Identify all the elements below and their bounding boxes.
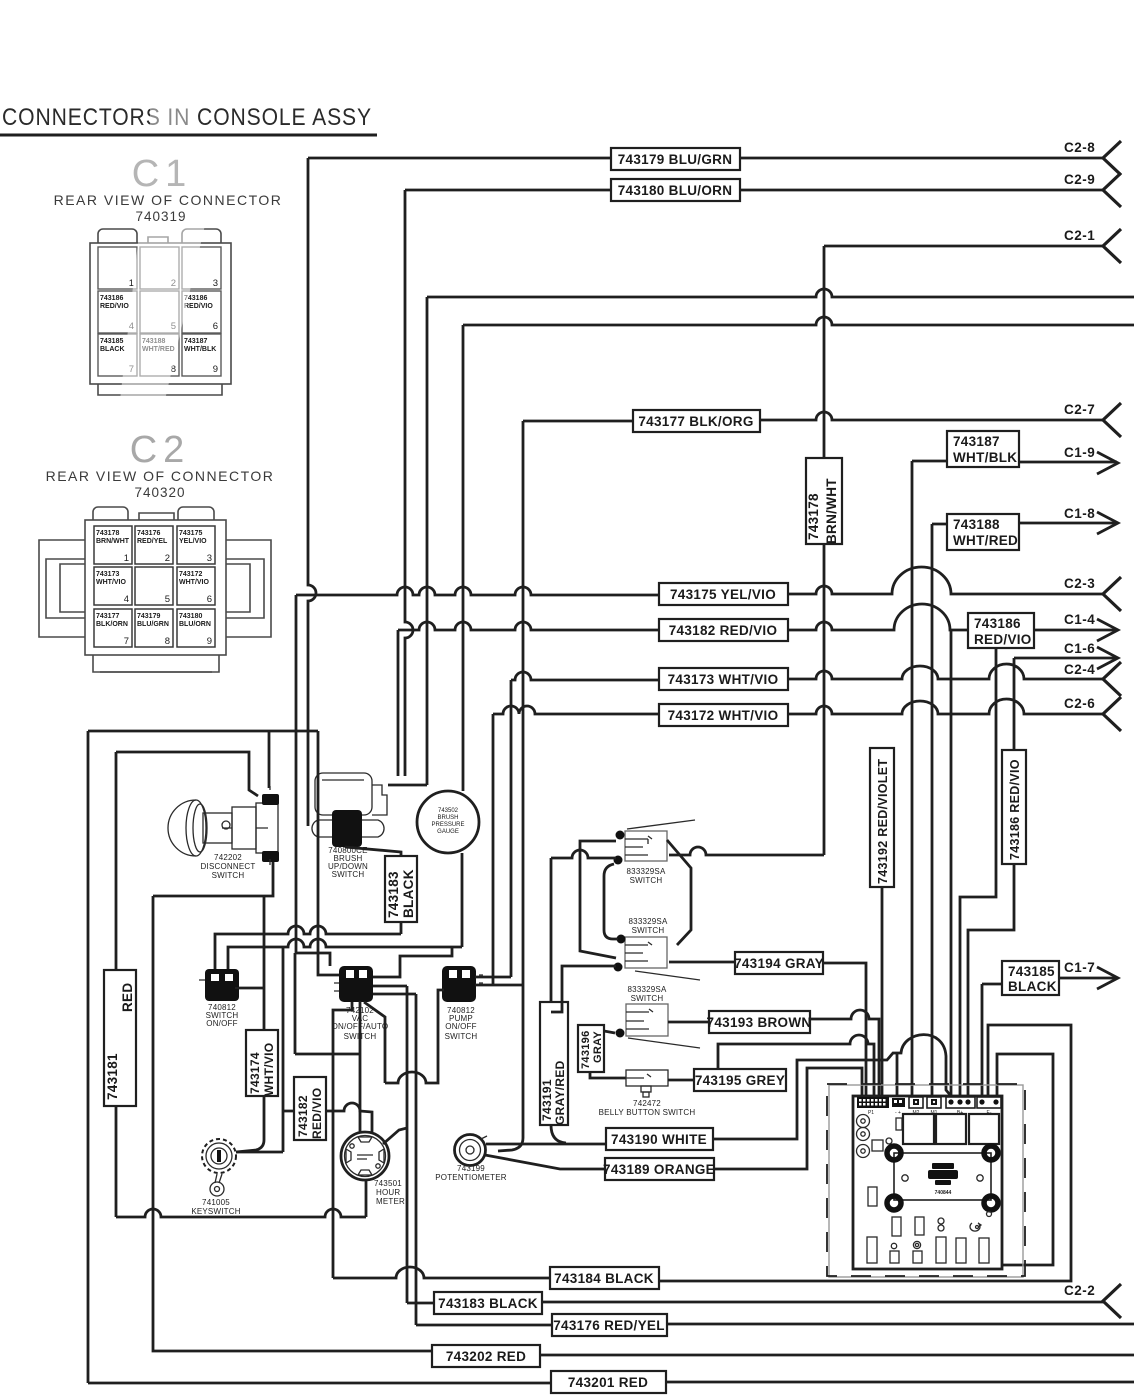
svg-text:METER: METER: [376, 1197, 405, 1206]
module screw holes: [902, 1175, 908, 1181]
label box 743176 RED/YEL: [552, 1314, 667, 1336]
wire E- wrap: [950, 1054, 1053, 1269]
brush switch ears: [312, 820, 384, 837]
switch 742102 vac: [334, 966, 373, 1002]
wire vac to y947 riser: [373, 947, 452, 977]
wire 743183 to C2-2: [542, 1301, 1104, 1304]
board small components: [867, 1187, 992, 1263]
connector C1 wire labels: [100, 295, 216, 353]
svg-text:C1-9: C1-9: [1064, 445, 1095, 460]
svg-text:GAUGE: GAUGE: [437, 829, 459, 835]
wire sw2 bottom branch: [551, 966, 616, 1012]
wire 743185 BLACK to C1-7: [982, 978, 1117, 1096]
wire left rail x116: [115, 752, 118, 1217]
wire on/off to rail: [239, 987, 264, 990]
wire 743182 RED/VIO to C1-4: [398, 604, 1117, 630]
C1 CONNECTOR: [54, 153, 283, 395]
svg-text:BLU/ORN: BLU/ORN: [179, 621, 211, 628]
svg-text:SWITCH: SWITCH: [632, 926, 665, 935]
svg-text:1: 1: [124, 553, 129, 564]
svg-text:HOUR: HOUR: [376, 1188, 400, 1197]
svg-text:743175 YEL/VIO: 743175 YEL/VIO: [670, 587, 776, 602]
wire vac right to x416: [373, 993, 416, 996]
wire sw1-sw2 outer loop: [667, 840, 691, 945]
label box 743191 GRAY/RED: [540, 1002, 568, 1125]
module standoffs: [887, 1146, 998, 1210]
wire 743175 YEL/VIO to C2-3: [296, 567, 1104, 595]
terminal E-: [977, 1097, 1001, 1116]
wire 743191 vertical: [551, 858, 566, 1143]
wire branch to minus plus: [896, 1053, 899, 1096]
label box 743193 BROWN: [709, 1011, 810, 1033]
wire y1217 keyswitch row: [116, 1209, 366, 1217]
control board 740844 outline: [853, 1096, 1002, 1269]
svg-text:743196: 743196: [580, 1030, 592, 1069]
svg-text:RED/VIO: RED/VIO: [974, 632, 1032, 647]
gauge 743502: [417, 791, 479, 853]
svg-text:743183 BLACK: 743183 BLACK: [438, 1296, 538, 1311]
svg-text:C1-6: C1-6: [1064, 641, 1095, 656]
svg-text:SWITCH: SWITCH: [332, 870, 365, 879]
terminal M2: [909, 1097, 923, 1116]
label box 743194 GRAY: [735, 952, 823, 974]
wire 743194 left: [669, 961, 735, 964]
label box 743186 RED/VIO: [968, 613, 1034, 648]
svg-text:743502: 743502: [438, 808, 459, 814]
label box 743180 BLU/ORN: [611, 179, 740, 201]
console outline gray: [829, 1085, 1023, 1277]
svg-text:WHT/VIO: WHT/VIO: [96, 579, 126, 586]
label box 743172 WHT/VIO: [659, 704, 788, 726]
label box 743195 GREY: [694, 1069, 786, 1091]
svg-text:C1: C1: [132, 153, 193, 195]
svg-text:BLACK: BLACK: [1008, 979, 1057, 994]
wire y934: [215, 926, 401, 969]
svg-text:2: 2: [165, 553, 170, 564]
wire C1-9 vertical to M2: [911, 461, 914, 1096]
wire pot to 743190: [486, 1143, 606, 1146]
svg-text:WHT/RED: WHT/RED: [953, 533, 1018, 548]
connector C2 wire labels: [96, 530, 211, 628]
wire 743180 BLU/ORN to C2-9: [405, 189, 1104, 192]
wire 743179 vertical: [308, 158, 316, 826]
wire 743186 box down to B+: [960, 648, 996, 1096]
brush switch bracket 740800CE: [315, 773, 387, 815]
BOARD: [827, 1084, 1025, 1277]
terminal P1: [857, 1097, 889, 1116]
disconnect switch 742202: [168, 800, 278, 856]
svg-text:743187: 743187: [184, 338, 207, 345]
svg-text:9: 9: [207, 636, 212, 647]
wire pot to 743189: [485, 1155, 605, 1169]
svg-text:WHT/BLK: WHT/BLK: [184, 346, 216, 353]
svg-text:ON/OFF: ON/OFF: [206, 1019, 237, 1028]
svg-text:C1-8: C1-8: [1064, 506, 1095, 521]
svg-text:BRUSH: BRUSH: [437, 815, 458, 821]
svg-text:743202 RED: 743202 RED: [446, 1349, 526, 1364]
terminal minus plus: [892, 1098, 905, 1116]
svg-text:833329SA: 833329SA: [629, 917, 668, 926]
wire 743182 box feed: [283, 1103, 372, 1133]
svg-text:RED/YEL: RED/YEL: [137, 538, 168, 545]
svg-text:743173: 743173: [96, 571, 119, 578]
svg-text:3: 3: [213, 278, 218, 289]
label box 743202 RED: [432, 1345, 540, 1367]
svg-text:743173 WHT/VIO: 743173 WHT/VIO: [668, 672, 779, 687]
svg-text:743180 BLU/ORN: 743180 BLU/ORN: [618, 183, 733, 198]
svg-text:743177 BLK/ORG: 743177 BLK/ORG: [638, 414, 753, 429]
svg-text:BRN/WHT: BRN/WHT: [824, 478, 839, 544]
wire x360 hour meter top: [359, 1001, 362, 1133]
C2 CONNECTOR: [39, 429, 274, 672]
label box 743189 ORANGE: [605, 1158, 714, 1180]
terminal B+: [946, 1097, 975, 1116]
svg-text:743501: 743501: [374, 1179, 402, 1188]
label box 743177 BLK/ORG: [633, 410, 760, 432]
svg-text:743192 RED/VIOLET: 743192 RED/VIOLET: [876, 759, 890, 884]
wire x407 vertical: [406, 986, 409, 1303]
wire C1-6: [1014, 657, 1117, 660]
title underline: [0, 134, 377, 137]
wire disconnect bottom: [153, 862, 273, 896]
label box 743186 RED/VIO vertical: [1002, 750, 1026, 864]
svg-text:POTENTIOMETER: POTENTIOMETER: [435, 1173, 507, 1182]
svg-text:743188: 743188: [953, 517, 1000, 532]
wire keyswitch right: [236, 947, 283, 1152]
label box 743187 WHT/BLK: [947, 431, 1019, 467]
svg-text:C2-6: C2-6: [1064, 696, 1095, 711]
wire 743177 BLK/ORG to C2-7: [523, 412, 1104, 421]
wire 743177 vertical: [522, 421, 525, 985]
wire 743179 BLU/GRN to C2-8: [308, 157, 1104, 160]
wire vac right to x407: [373, 985, 407, 988]
wire y297 vertical: [388, 297, 427, 785]
svg-text:743185: 743185: [100, 338, 123, 345]
svg-text:833329SA: 833329SA: [628, 985, 667, 994]
svg-text:743172 WHT/VIO: 743172 WHT/VIO: [668, 708, 779, 723]
micro switch 833329SA third: [616, 1004, 701, 1048]
wire x264 down to keyswitch: [236, 896, 264, 1152]
svg-text:REAR VIEW OF CONNECTOR: REAR VIEW OF CONNECTOR: [46, 468, 275, 484]
label box 743175 YEL/VIO: [659, 583, 788, 605]
svg-text:WHT/BLK: WHT/BLK: [953, 450, 1017, 465]
connector C1 pin numbers: [129, 278, 218, 375]
svg-text:743182: 743182: [296, 1095, 310, 1137]
svg-text:5: 5: [165, 594, 170, 605]
svg-text:8: 8: [165, 636, 170, 647]
svg-text:9: 9: [213, 364, 218, 375]
keyswitch 741005: [202, 1139, 236, 1196]
label box 743185 BLACK: [1002, 961, 1059, 995]
label box 743173 WHT/VIO: [659, 668, 788, 690]
wire 743173 WHT/VIO to C2-4: [511, 664, 1104, 680]
wire C2-1: [824, 245, 1104, 248]
wire y1054: [295, 953, 360, 1054]
relay 2: [936, 1114, 966, 1144]
svg-text:743199: 743199: [457, 1164, 485, 1173]
wire x333 down: [333, 1002, 352, 1278]
svg-text:743185: 743185: [1008, 964, 1055, 979]
connector C2 pin numbers: [124, 553, 212, 647]
svg-text:743186: 743186: [100, 295, 123, 302]
wire C1-6 vertical 743186 RED/VIO: [968, 658, 1014, 1096]
potentiometer 743199: [455, 1135, 488, 1166]
svg-text:743176: 743176: [137, 530, 160, 537]
wire pump right upper: [475, 976, 511, 979]
wire x416 vertical: [415, 994, 418, 1325]
svg-text:SWITCH: SWITCH: [445, 1032, 478, 1041]
BOTTOM: [88, 896, 1134, 1393]
svg-text:7: 7: [124, 636, 129, 647]
wire 743182 vertical: [397, 630, 400, 776]
connector C2 cells: [94, 526, 215, 647]
svg-text:6: 6: [213, 321, 218, 332]
micro switch 833329SA second: [614, 935, 701, 981]
svg-text:743177: 743177: [96, 613, 119, 620]
svg-text:740320: 740320: [134, 485, 185, 500]
board standoff circles left: [857, 1115, 903, 1158]
switch 740812 on/off: [199, 969, 239, 1001]
svg-text:GRAY: GRAY: [592, 1031, 604, 1063]
svg-text:SWITCH: SWITCH: [630, 876, 663, 885]
brush switch rocker: [332, 810, 362, 847]
module logo: [928, 1163, 958, 1185]
wire 743178 BRN/WHT vertical: [669, 246, 824, 855]
wire 743201 left: [88, 1382, 551, 1385]
svg-text:743183: 743183: [386, 871, 401, 918]
svg-text:C2-3: C2-3: [1064, 576, 1095, 591]
terminal M1: [927, 1097, 941, 1116]
wire hour meter bottom: [365, 1181, 368, 1217]
svg-text:KEYSWITCH: KEYSWITCH: [191, 1207, 240, 1216]
svg-text:833329SA: 833329SA: [627, 867, 666, 876]
wire pump right lower: [475, 984, 523, 987]
svg-text:- +: - +: [895, 1110, 901, 1116]
wire gauge bottom: [461, 853, 464, 947]
wire y325 vertical to gauge: [462, 325, 465, 791]
svg-text:743179 BLU/GRN: 743179 BLU/GRN: [618, 152, 733, 167]
wire x318 to vac left: [318, 731, 339, 975]
svg-text:743178: 743178: [806, 493, 821, 540]
label box 743179 BLU/GRN: [611, 148, 740, 170]
svg-text:P1: P1: [868, 1110, 874, 1116]
wire vac bottom diagonal: [364, 1002, 385, 1083]
svg-text:743189 ORANGE: 743189 ORANGE: [603, 1162, 715, 1177]
wire 743189 right to P1: [714, 1068, 862, 1169]
relay 3: [969, 1114, 999, 1144]
svg-text:743195 GREY: 743195 GREY: [695, 1073, 785, 1088]
MID CLUSTER: [88, 731, 894, 1383]
wire 743183 left: [407, 1302, 434, 1305]
label box 743183 BLACK vertical: [385, 856, 417, 922]
hour meter 743501: [341, 1132, 389, 1180]
svg-text:C2-8: C2-8: [1064, 140, 1095, 155]
wire 743172 vertical: [492, 714, 495, 985]
svg-text:C2-7: C2-7: [1064, 402, 1095, 417]
svg-text:DISCONNECT: DISCONNECT: [201, 862, 256, 871]
wire hour meter right diagonal: [383, 1128, 407, 1144]
connector C1 740319 body: [90, 229, 231, 395]
svg-text:C1-4: C1-4: [1064, 612, 1095, 627]
fade overlay C1: [120, 90, 205, 400]
svg-text:WHT/VIO: WHT/VIO: [262, 1043, 276, 1096]
label box 743178 BRN/WHT: [806, 458, 842, 544]
svg-text:743201 RED: 743201 RED: [568, 1375, 648, 1390]
console outline dashed: [827, 1084, 1025, 1276]
wire 743180 vertical: [405, 190, 413, 776]
label box 743196 GRAY: [578, 1025, 604, 1072]
wire 743190 right to B+: [713, 1035, 951, 1139]
label box 743183 BLACK: [434, 1292, 542, 1314]
svg-text:743181: 743181: [105, 1053, 120, 1100]
wire vac top feed: [296, 953, 330, 966]
svg-text:742472: 742472: [633, 1099, 661, 1108]
wire y947: [228, 939, 462, 969]
label box 743174 WHT/VIO: [246, 1030, 278, 1096]
label box 743190 WHITE: [606, 1128, 713, 1150]
svg-text:6: 6: [207, 594, 212, 605]
svg-text:740319: 740319: [135, 209, 186, 224]
svg-text:743187: 743187: [953, 434, 1000, 449]
wire 743202 left: [153, 896, 432, 1351]
svg-text:BLU/GRN: BLU/GRN: [137, 621, 169, 628]
svg-text:BRN/WHT: BRN/WHT: [96, 538, 130, 545]
wire 743175 vertical: [295, 595, 298, 953]
connector C1 cells: [98, 247, 221, 376]
svg-text:740844: 740844: [935, 1190, 952, 1196]
label box 743192 RED/VIOLET: [870, 748, 894, 887]
wire disconnect feed down: [268, 731, 271, 788]
belly button switch 742472: [626, 1070, 668, 1097]
disconnect switch terminals: [262, 794, 279, 805]
wire 743187 to C1-9: [912, 461, 1117, 462]
wire 743184 left: [333, 1267, 550, 1278]
wire sw3 feed 743196: [590, 1031, 626, 1078]
svg-text:C2: C2: [130, 429, 191, 471]
svg-text:743176 RED/YEL: 743176 RED/YEL: [553, 1318, 665, 1333]
svg-text:743190 WHITE: 743190 WHITE: [611, 1132, 707, 1147]
wire 743194 right to P1: [823, 963, 866, 1096]
wire C1-8 vertical to M1: [931, 524, 934, 1096]
svg-text:743186: 743186: [974, 616, 1021, 631]
svg-text:ON/OFF: ON/OFF: [445, 1022, 476, 1031]
label box 743201 RED: [551, 1371, 666, 1393]
svg-text:SWITCH: SWITCH: [212, 871, 245, 880]
wire 743172 WHT/VIO to C2-6: [493, 699, 1104, 714]
wire branch to B+ first: [950, 631, 953, 1096]
svg-text:742202: 742202: [214, 853, 242, 862]
svg-text:C2-4: C2-4: [1064, 662, 1095, 677]
label box 743182 RED/VIO: [659, 619, 788, 641]
wire 743193 right to P1: [810, 1010, 879, 1096]
connector C2 left wing: [39, 540, 85, 637]
wire 743195 top to -+: [718, 1035, 874, 1096]
wire top loop y731: [88, 730, 318, 733]
wire sw3 to 743193: [668, 1021, 709, 1024]
svg-text:743179: 743179: [137, 613, 160, 620]
svg-text:743194 GRAY: 743194 GRAY: [734, 956, 824, 971]
svg-text:C2-9: C2-9: [1064, 172, 1095, 187]
svg-text:C1-7: C1-7: [1064, 960, 1095, 975]
svg-text:PRESSURE: PRESSURE: [431, 822, 464, 828]
wire 743202 right: [540, 1354, 1134, 1357]
module plate: [894, 1153, 991, 1200]
relay 1: [903, 1114, 934, 1144]
svg-text:743174: 743174: [248, 1052, 262, 1094]
svg-text:743193 BROWN: 743193 BROWN: [707, 1015, 812, 1030]
connector C2 right wing: [226, 540, 271, 637]
wire row y325 to edge: [463, 317, 1134, 325]
wire sw1-sw2 inner loop: [604, 864, 618, 939]
svg-text:RED/VIO: RED/VIO: [310, 1088, 324, 1139]
svg-text:4: 4: [124, 594, 129, 605]
wire left rail x88: [87, 731, 90, 1383]
svg-text:BLACK: BLACK: [401, 869, 416, 918]
wire 743184 wrap around board: [659, 1025, 1071, 1281]
label box 743184 BLACK: [550, 1267, 659, 1289]
label box 743188 WHT/RED: [947, 514, 1019, 550]
wire row y297 to edge: [427, 289, 1134, 297]
svg-text:YEL/VIO: YEL/VIO: [179, 538, 207, 545]
wire sw1 bottom to 743191: [551, 850, 616, 858]
micro switch 833329SA first: [614, 820, 696, 865]
wire 743192 to P1: [881, 887, 884, 1096]
svg-text:SWITCH: SWITCH: [631, 994, 664, 1003]
svg-text:743182 RED/VIO: 743182 RED/VIO: [669, 623, 778, 638]
wire belly to 743195: [668, 1079, 694, 1082]
svg-text:REAR VIEW OF CONNECTOR: REAR VIEW OF CONNECTOR: [54, 192, 283, 208]
svg-text:743178: 743178: [96, 530, 119, 537]
svg-text:743191: 743191: [540, 1079, 554, 1121]
svg-text:GRAY/RED: GRAY/RED: [553, 1060, 567, 1125]
wire second loop y752: [116, 752, 258, 796]
svg-text:BLACK: BLACK: [100, 346, 125, 353]
RIGHT ROWS: [296, 140, 1134, 1096]
svg-text:C2-1: C2-1: [1064, 228, 1095, 243]
svg-text:743186 RED/VIO: 743186 RED/VIO: [1008, 759, 1022, 860]
svg-text:C2-2: C2-2: [1064, 1283, 1095, 1298]
svg-text:743184 BLACK: 743184 BLACK: [554, 1271, 654, 1286]
svg-text:741005: 741005: [202, 1198, 230, 1207]
svg-text:RED/VIO: RED/VIO: [184, 303, 213, 310]
wire 743173 vertical: [510, 680, 513, 977]
svg-text:RED/VIO: RED/VIO: [100, 303, 129, 310]
label box 743182 RED/VIO vertical: [294, 1077, 326, 1140]
svg-text:RED: RED: [120, 983, 135, 1012]
wire y1083 arch to pump: [385, 990, 444, 1083]
wire 743188 to C1-8: [932, 523, 1117, 524]
connector C2 740320 body: [85, 507, 226, 672]
svg-text:WHT/VIO: WHT/VIO: [179, 579, 209, 586]
svg-text:743172: 743172: [179, 571, 202, 578]
svg-text:743175: 743175: [179, 530, 202, 537]
label box 743181 RED: [104, 970, 136, 1106]
TITLE: [0, 104, 377, 135]
wire 743176 right: [667, 1323, 1134, 1326]
svg-text:743180: 743180: [179, 613, 202, 620]
svg-text:BELLY BUTTON SWITCH: BELLY BUTTON SWITCH: [599, 1108, 696, 1117]
svg-text:3: 3: [207, 553, 212, 564]
switch 740812 pump: [442, 966, 483, 1002]
wire 743176 left: [416, 1324, 552, 1327]
wire x523 to pot: [498, 985, 523, 1151]
svg-text:BLK/ORN: BLK/ORN: [96, 621, 128, 628]
wire 743201 right: [666, 1381, 1134, 1384]
wire 743183 BLACK vertical: [345, 847, 401, 934]
wire sw1 top contact: [580, 841, 616, 958]
